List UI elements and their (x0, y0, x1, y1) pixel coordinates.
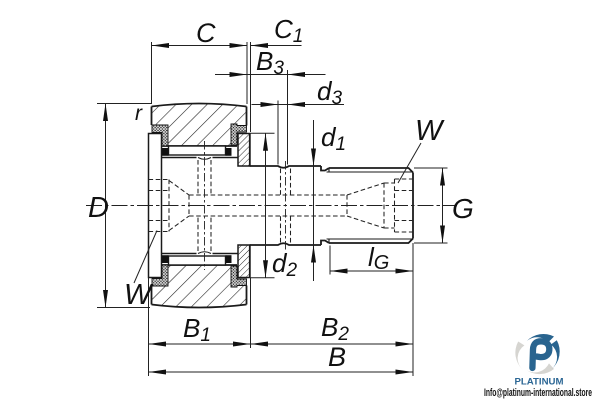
C right / B3 left (250, 42, 252, 132)
flange washer (hatched) top (238, 134, 250, 278)
axis dash-dot small (205, 141, 286, 270)
main centerline (86, 205, 457, 207)
B2 (251, 342, 269, 347)
thread start face (328, 168, 330, 172)
D (265, 133, 267, 277)
needle band bottom (169, 256, 226, 265)
gray bottom petal (527, 363, 554, 374)
stud profile: d1 cylinder, neck, thread (250, 134, 413, 278)
leaders (398, 143, 421, 183)
C1 (251, 43, 269, 48)
blue P (532, 341, 549, 368)
lG (149, 343, 251, 345)
neck top (321, 166, 329, 171)
svg-text:Info@platinum-international.st: Info@platinum-international.store (484, 387, 592, 399)
W right leader (134, 231, 157, 284)
C left (246, 42, 248, 104)
seal left-top (152, 124, 247, 287)
d2 top ext (251, 277, 275, 279)
svg-text:W: W (124, 279, 154, 311)
ring rebate notches (white) (151, 125, 162, 147)
lG left ext (412, 243, 414, 376)
flange washer bottom (238, 245, 250, 278)
seal right-top (231, 124, 247, 145)
svg-text:G: G (452, 193, 474, 224)
B3 right / d3 right (277, 101, 279, 165)
flange right face vertical (249, 134, 251, 167)
d3 outside arrows (261, 102, 279, 107)
outer ring (roller) hatched body (152, 104, 247, 308)
D top ext (97, 307, 150, 309)
left ext B1/B (250, 278, 252, 348)
blue right petal (551, 340, 560, 369)
radial lube hole 1 (197, 160, 199, 195)
C (152, 43, 170, 48)
cylinder bottom with groove dip (250, 243, 321, 245)
B2 (149, 371, 414, 373)
right hex socket (394, 179, 396, 232)
svg-text:r: r (135, 102, 143, 125)
d1 (442, 168, 444, 243)
needle roller band top (169, 146, 226, 155)
C1 (215, 74, 326, 76)
dimension lines (152, 45, 248, 47)
C (251, 45, 302, 47)
D bottom ext (251, 132, 275, 134)
svg-text:C: C (196, 18, 216, 48)
blue top petal (527, 334, 554, 342)
right ext for lG/B2/B (148, 278, 150, 377)
d3 left (97, 103, 152, 105)
d2 (313, 120, 315, 281)
thread minor lines (327, 171, 414, 173)
D (103, 104, 108, 122)
needle end caps (black) (162, 148, 169, 156)
G top ext (414, 242, 448, 244)
hidden lines: central drill hole (149, 160, 414, 251)
d1 (outside arrows) (311, 149, 316, 167)
radial lube hole 2 (280, 169, 282, 196)
seal right-bottom (231, 266, 247, 287)
svg-text:W: W (415, 115, 445, 147)
thread major top/bottom (329, 168, 413, 173)
G bottom ext (329, 246, 331, 275)
B (149, 370, 167, 375)
d2 (263, 133, 268, 151)
stud raceway lines (162, 158, 239, 254)
right face (412, 173, 414, 239)
G (440, 168, 445, 186)
end washer (left plate) (149, 134, 162, 278)
d2 bottom ext (414, 167, 448, 169)
d3 (105, 104, 107, 308)
svg-text:PLATINUM: PLATINUM (515, 377, 564, 387)
gray left petal (515, 342, 524, 370)
seal left-bottom (152, 265, 168, 286)
svg-text:B: B (328, 342, 346, 372)
B1 (251, 343, 414, 345)
extension lines (151, 42, 153, 103)
cylinder top with groove dip (250, 166, 321, 168)
B3 outside arrows (230, 72, 248, 77)
svg-text:D: D (88, 192, 109, 224)
G (330, 270, 413, 272)
arrowheads (103, 43, 445, 375)
lG (330, 269, 348, 274)
right socket cone (346, 195, 348, 216)
B3 (252, 104, 345, 106)
left hex socket (149, 179, 170, 181)
outer ring outline (152, 104, 247, 308)
B1 (149, 342, 167, 347)
C1 / flange face top (287, 70, 289, 165)
